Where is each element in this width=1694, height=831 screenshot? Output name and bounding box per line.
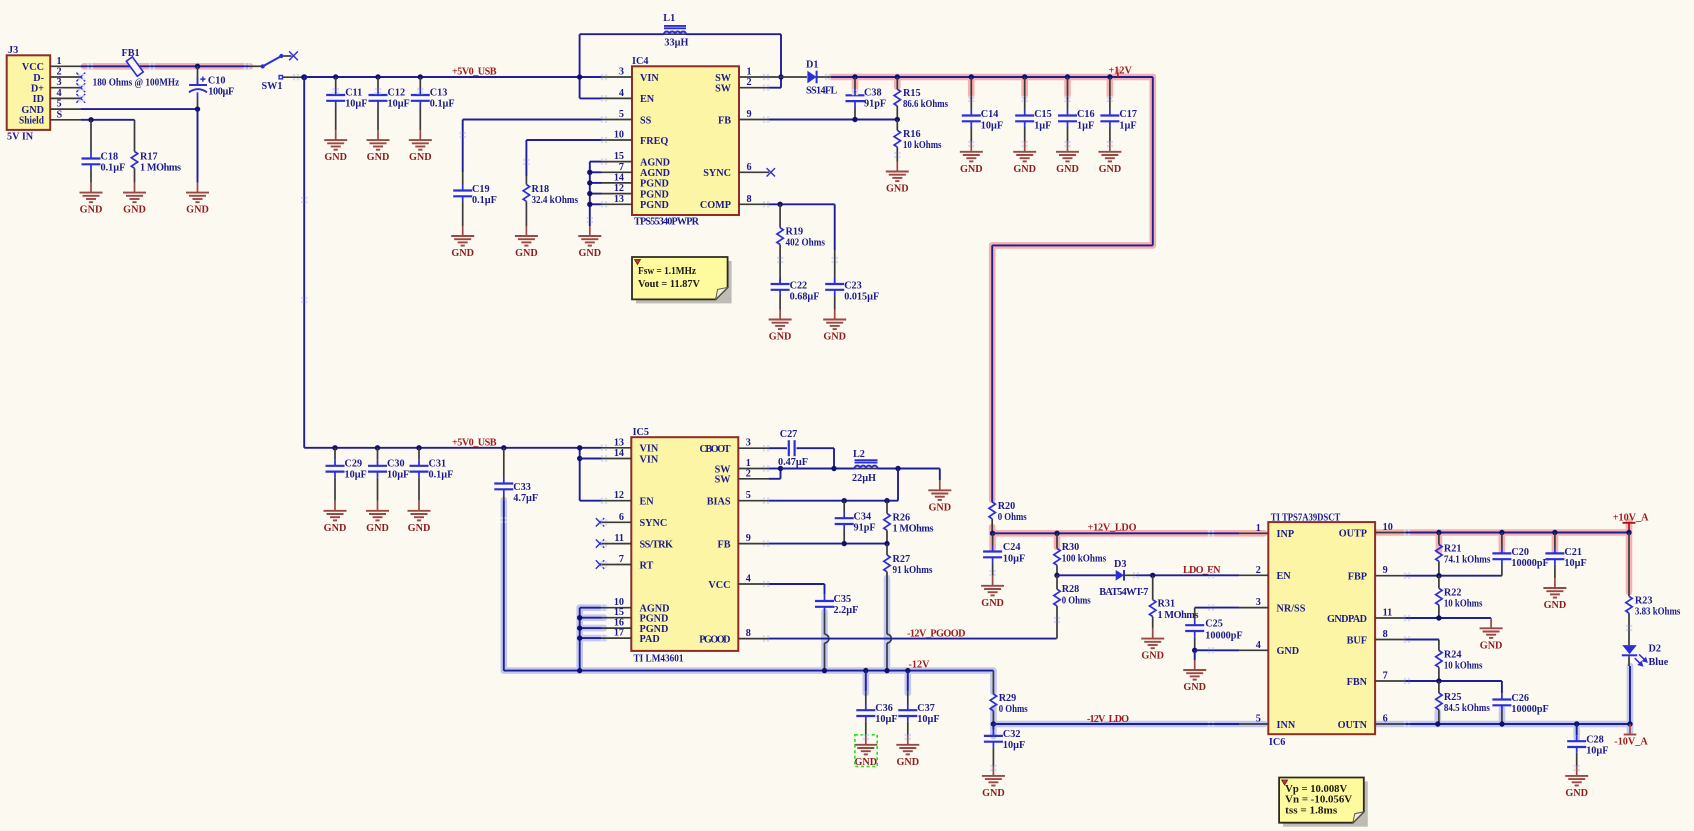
svg-text:PGND: PGND	[640, 200, 669, 211]
svg-text:C21: C21	[1564, 547, 1582, 558]
svg-text:1: 1	[1256, 523, 1261, 534]
svg-text:10µF: 10µF	[1564, 558, 1586, 569]
svg-text:-12V: -12V	[909, 659, 931, 670]
svg-text:BIAS: BIAS	[707, 497, 731, 508]
svg-text:R18: R18	[532, 184, 550, 195]
svg-text:GNDPAD: GNDPAD	[1327, 614, 1367, 625]
svg-text:8: 8	[1383, 629, 1388, 640]
svg-text:R27: R27	[893, 554, 911, 565]
svg-text:PGND: PGND	[640, 179, 669, 190]
svg-text:8: 8	[746, 628, 751, 639]
svg-text:VCC: VCC	[22, 62, 44, 73]
svg-text:10000pF: 10000pF	[1511, 704, 1548, 715]
svg-text:SYNC: SYNC	[640, 518, 668, 529]
svg-text:TPS55340PWPR: TPS55340PWPR	[634, 217, 700, 228]
svg-text:10µF: 10µF	[388, 99, 410, 110]
svg-text:R16: R16	[903, 129, 921, 140]
svg-text:FREQ: FREQ	[640, 136, 668, 147]
svg-text:VIN: VIN	[640, 454, 659, 465]
svg-text:33µH: 33µH	[664, 38, 688, 49]
svg-text:0 Ohms: 0 Ohms	[1062, 596, 1091, 607]
svg-text:5: 5	[619, 109, 624, 120]
svg-text:EN: EN	[1277, 571, 1292, 582]
svg-text:NR/SS: NR/SS	[1277, 603, 1306, 614]
svg-text:GND: GND	[1013, 164, 1036, 175]
svg-text:1 MOhms: 1 MOhms	[893, 524, 934, 535]
svg-text:0.47µF: 0.47µF	[778, 457, 808, 468]
svg-text:GND: GND	[769, 332, 792, 343]
svg-text:6: 6	[619, 512, 624, 523]
svg-text:BAT54WT-7: BAT54WT-7	[1099, 587, 1148, 598]
svg-text:C10: C10	[208, 75, 226, 86]
svg-text:R30: R30	[1062, 542, 1080, 553]
svg-text:-12V_LDO: -12V_LDO	[1087, 714, 1129, 725]
svg-text:GND: GND	[928, 502, 951, 513]
svg-text:PAD: PAD	[640, 634, 660, 645]
svg-text:7: 7	[619, 162, 624, 173]
svg-text:10 kOhms: 10 kOhms	[1444, 661, 1483, 672]
svg-text:2: 2	[57, 67, 62, 78]
svg-text:180 Ohms @ 100MHz: 180 Ohms @ 100MHz	[93, 78, 180, 89]
svg-text:10 kOhms: 10 kOhms	[903, 140, 942, 151]
svg-text:AGND: AGND	[640, 168, 670, 179]
svg-text:Blue: Blue	[1649, 657, 1669, 668]
svg-text:0.1µF: 0.1µF	[472, 195, 497, 206]
svg-text:3: 3	[746, 438, 751, 449]
svg-text:4: 4	[57, 88, 62, 99]
svg-text:4: 4	[746, 574, 751, 585]
svg-text:RT: RT	[640, 560, 654, 571]
svg-text:GND: GND	[1277, 646, 1300, 657]
svg-text:GND: GND	[515, 248, 538, 259]
svg-text:8: 8	[747, 194, 752, 205]
svg-text:15: 15	[614, 607, 624, 618]
svg-text:VIN: VIN	[640, 444, 659, 455]
svg-text:10µF: 10µF	[1003, 740, 1025, 751]
svg-text:0.1µF: 0.1µF	[101, 163, 126, 174]
svg-text:9: 9	[747, 109, 752, 120]
svg-text:GND: GND	[1056, 164, 1079, 175]
svg-text:C32: C32	[1003, 729, 1021, 740]
svg-text:Vp = 10.008V: Vp = 10.008V	[1285, 784, 1347, 795]
svg-text:C14: C14	[981, 109, 999, 120]
svg-text:EN: EN	[640, 497, 655, 508]
svg-text:OUTN: OUTN	[1338, 720, 1368, 731]
svg-text:Shield: Shield	[19, 116, 44, 127]
svg-text:SS/TRK: SS/TRK	[640, 539, 673, 550]
svg-text:IC4: IC4	[632, 56, 648, 67]
svg-text:100 kOhms: 100 kOhms	[1062, 554, 1107, 565]
svg-text:84.5 kOhms: 84.5 kOhms	[1444, 703, 1490, 714]
svg-text:Fsw = 1.1MHz: Fsw = 1.1MHz	[638, 266, 696, 277]
svg-text:5: 5	[746, 490, 751, 501]
svg-text:1µF: 1µF	[1119, 121, 1136, 132]
svg-text:C31: C31	[429, 458, 447, 469]
svg-text:C35: C35	[834, 594, 852, 605]
svg-text:10: 10	[614, 130, 624, 141]
svg-text:1 MOhms: 1 MOhms	[140, 163, 181, 174]
svg-text:9: 9	[746, 533, 751, 544]
svg-text:GND: GND	[886, 184, 909, 195]
svg-text:0.68µF: 0.68µF	[790, 292, 820, 303]
svg-text:11: 11	[1383, 608, 1393, 619]
svg-text:GND: GND	[981, 598, 1004, 609]
svg-text:TI TPS7A39DSCT: TI TPS7A39DSCT	[1271, 512, 1341, 523]
svg-text:100µF: 100µF	[208, 86, 234, 97]
svg-text:C26: C26	[1511, 693, 1529, 704]
svg-text:FB1: FB1	[122, 48, 140, 59]
svg-text:C20: C20	[1511, 547, 1529, 558]
svg-text:10µF: 10µF	[917, 714, 939, 725]
svg-text:R21: R21	[1444, 544, 1462, 555]
svg-text:C17: C17	[1119, 109, 1137, 120]
svg-text:4: 4	[1256, 640, 1261, 651]
svg-text:5V IN: 5V IN	[7, 132, 34, 143]
svg-text:13: 13	[614, 194, 624, 205]
svg-text:D1: D1	[806, 60, 818, 71]
svg-text:15: 15	[614, 151, 624, 162]
svg-text:GND: GND	[408, 523, 431, 534]
svg-text:GND: GND	[1141, 651, 1164, 662]
svg-text:tss = 1.8ms: tss = 1.8ms	[1285, 806, 1337, 817]
svg-text:2: 2	[746, 468, 751, 479]
svg-text:86.6 kOhms: 86.6 kOhms	[903, 99, 948, 110]
svg-text:GND: GND	[1099, 164, 1122, 175]
svg-text:4: 4	[619, 88, 624, 99]
svg-text:2: 2	[1256, 565, 1261, 576]
svg-text:VCC: VCC	[708, 580, 730, 591]
svg-text:GND: GND	[186, 205, 209, 216]
svg-text:10000pF: 10000pF	[1511, 558, 1548, 569]
svg-text:22µH: 22µH	[852, 473, 876, 484]
svg-text:C34: C34	[854, 512, 872, 523]
svg-text:91 kOhms: 91 kOhms	[893, 565, 933, 576]
svg-text:D+: D+	[31, 84, 44, 95]
svg-text:402 Ohms: 402 Ohms	[786, 238, 826, 249]
svg-text:VIN: VIN	[640, 73, 659, 84]
svg-text:GND: GND	[960, 164, 983, 175]
svg-text:1 MOhms: 1 MOhms	[1158, 610, 1199, 621]
svg-text:+12V_LDO: +12V_LDO	[1088, 523, 1137, 534]
svg-text:R24: R24	[1444, 650, 1462, 661]
svg-text:GND: GND	[80, 205, 103, 216]
svg-text:COMP: COMP	[700, 200, 731, 211]
svg-text:GND: GND	[578, 248, 601, 259]
svg-text:C30: C30	[387, 458, 405, 469]
svg-text:R28: R28	[1062, 584, 1080, 595]
svg-text:9: 9	[1383, 565, 1388, 576]
svg-text:C27: C27	[780, 429, 798, 440]
svg-text:0.1µF: 0.1µF	[429, 469, 454, 480]
svg-text:C29: C29	[345, 458, 363, 469]
svg-text:1µF: 1µF	[1034, 121, 1051, 132]
svg-text:L2: L2	[853, 449, 865, 460]
svg-text:C16: C16	[1077, 109, 1095, 120]
svg-text:1: 1	[57, 56, 62, 67]
svg-text:PGND: PGND	[640, 614, 669, 625]
svg-text:GND: GND	[1480, 640, 1503, 651]
svg-text:GND: GND	[1544, 600, 1567, 611]
svg-text:EN: EN	[640, 94, 655, 105]
svg-text:C37: C37	[917, 703, 935, 714]
svg-text:GND: GND	[451, 248, 474, 259]
svg-text:C33: C33	[513, 482, 531, 493]
svg-text:C18: C18	[101, 152, 119, 163]
svg-text:91pF: 91pF	[854, 523, 876, 534]
svg-text:C12: C12	[388, 88, 406, 99]
svg-text:0 Ohms: 0 Ohms	[998, 512, 1027, 523]
svg-text:R26: R26	[893, 513, 911, 524]
svg-text:GND: GND	[1183, 682, 1206, 693]
svg-text:7: 7	[1383, 671, 1388, 682]
svg-text:3: 3	[619, 67, 624, 78]
svg-text:ID: ID	[33, 94, 44, 105]
svg-text:R29: R29	[999, 693, 1017, 704]
svg-text:12: 12	[614, 183, 624, 194]
svg-text:SS: SS	[640, 115, 652, 126]
svg-text:10µF: 10µF	[981, 121, 1003, 132]
svg-text:-10V_A: -10V_A	[1614, 737, 1648, 748]
svg-text:10µF: 10µF	[387, 469, 409, 480]
svg-text:C24: C24	[1003, 542, 1021, 553]
svg-text:D2: D2	[1649, 644, 1661, 655]
svg-text:GND: GND	[1565, 788, 1588, 799]
svg-text:10µF: 10µF	[1003, 554, 1025, 565]
svg-text:SW: SW	[715, 84, 732, 95]
svg-text:10: 10	[1383, 522, 1393, 533]
svg-text:Vout = 11.87V: Vout = 11.87V	[638, 279, 700, 290]
svg-text:91pF: 91pF	[864, 99, 886, 110]
svg-text:AGND: AGND	[640, 157, 670, 168]
svg-text:1µF: 1µF	[1077, 121, 1094, 132]
svg-text:R22: R22	[1444, 587, 1462, 598]
svg-text:PGND: PGND	[640, 189, 669, 200]
svg-text:0.015µF: 0.015µF	[844, 292, 879, 303]
svg-text:GND: GND	[367, 152, 390, 163]
svg-text:+12V: +12V	[1109, 66, 1133, 77]
svg-text:+5V0_USB: +5V0_USB	[452, 67, 497, 78]
svg-text:FBP: FBP	[1348, 572, 1367, 583]
svg-text:14: 14	[614, 172, 624, 183]
svg-text:3: 3	[1256, 597, 1261, 608]
svg-text:5: 5	[57, 99, 62, 110]
svg-text:10µF: 10µF	[875, 714, 897, 725]
svg-text:GND: GND	[409, 152, 432, 163]
svg-text:SW: SW	[715, 73, 732, 84]
svg-text:32.4 kOhms: 32.4 kOhms	[532, 195, 579, 206]
svg-text:GND: GND	[21, 105, 44, 116]
svg-text:14: 14	[614, 448, 624, 459]
svg-text:L1: L1	[663, 13, 675, 24]
svg-text:D3: D3	[1114, 559, 1126, 570]
svg-text:GND: GND	[823, 332, 846, 343]
svg-text:PGOOD: PGOOD	[699, 634, 730, 645]
svg-text:C15: C15	[1034, 109, 1052, 120]
svg-text:R31: R31	[1158, 599, 1176, 610]
svg-text:FBN: FBN	[1347, 677, 1368, 688]
svg-text:SW1: SW1	[262, 81, 283, 92]
svg-text:D-: D-	[33, 73, 44, 84]
svg-text:GND: GND	[324, 523, 347, 534]
svg-text:INP: INP	[1277, 529, 1295, 540]
svg-text:2: 2	[747, 77, 752, 88]
svg-text:10000pF: 10000pF	[1205, 631, 1242, 642]
svg-text:12: 12	[614, 490, 624, 501]
svg-text:C13: C13	[430, 88, 448, 99]
svg-text:3.83 kOhms: 3.83 kOhms	[1635, 606, 1681, 617]
svg-text:BUF: BUF	[1347, 635, 1367, 646]
svg-text:5: 5	[1256, 714, 1261, 725]
svg-text:GND: GND	[324, 152, 347, 163]
svg-text:4.7µF: 4.7µF	[513, 493, 538, 504]
svg-text:R19: R19	[786, 227, 804, 238]
svg-text:R17: R17	[140, 152, 158, 163]
svg-text:C22: C22	[790, 281, 808, 292]
svg-text:13: 13	[614, 437, 624, 448]
svg-text:10µF: 10µF	[345, 469, 367, 480]
svg-text:-12V_PGOOD: -12V_PGOOD	[907, 628, 966, 639]
svg-text:0.1µF: 0.1µF	[430, 99, 455, 110]
svg-text:C28: C28	[1586, 735, 1604, 746]
svg-text:2.2µF: 2.2µF	[834, 605, 859, 616]
svg-text:C23: C23	[844, 281, 862, 292]
svg-text:SW: SW	[715, 475, 732, 486]
svg-text:J3: J3	[8, 45, 18, 56]
svg-text:IC5: IC5	[633, 427, 649, 438]
svg-text:C38: C38	[864, 88, 882, 99]
svg-text:11: 11	[614, 533, 624, 544]
svg-text:SS14FL: SS14FL	[806, 85, 838, 96]
svg-text:+5V0_USB: +5V0_USB	[452, 437, 497, 448]
svg-text:GND: GND	[896, 757, 919, 768]
svg-text:6: 6	[747, 162, 752, 173]
svg-text:C19: C19	[472, 184, 490, 195]
svg-text:7: 7	[619, 554, 624, 565]
svg-text:R23: R23	[1635, 595, 1653, 606]
svg-text:C36: C36	[875, 703, 893, 714]
svg-text:C11: C11	[345, 88, 362, 99]
svg-text:0 Ohms: 0 Ohms	[999, 704, 1028, 715]
svg-text:SYNC: SYNC	[703, 168, 731, 179]
svg-text:GND: GND	[123, 205, 146, 216]
svg-text:74.1 kOhms: 74.1 kOhms	[1444, 555, 1491, 566]
svg-text:S: S	[57, 109, 63, 120]
svg-text:1: 1	[747, 67, 752, 78]
svg-text:+10V_A: +10V_A	[1613, 512, 1649, 523]
svg-text:GND: GND	[982, 788, 1005, 799]
svg-text:10 kOhms: 10 kOhms	[1444, 598, 1483, 609]
svg-text:FB: FB	[718, 115, 731, 126]
svg-text:OUTP: OUTP	[1339, 528, 1367, 539]
svg-text:3: 3	[57, 77, 62, 88]
svg-text:17: 17	[614, 628, 624, 639]
svg-text:C25: C25	[1205, 619, 1223, 630]
svg-text:10µF: 10µF	[345, 99, 367, 110]
svg-text:Vn = -10.056V: Vn = -10.056V	[1285, 795, 1352, 806]
svg-text:INN: INN	[1277, 720, 1296, 731]
svg-text:10µF: 10µF	[1586, 746, 1608, 757]
svg-text:GND: GND	[366, 523, 389, 534]
svg-text:FB: FB	[717, 539, 730, 550]
svg-text:6: 6	[1383, 714, 1388, 725]
svg-text:R25: R25	[1444, 692, 1462, 703]
svg-text:R15: R15	[903, 88, 921, 99]
svg-text:IC6: IC6	[1269, 737, 1285, 748]
svg-text:TI LM43601: TI LM43601	[634, 654, 684, 665]
svg-text:CBOOT: CBOOT	[700, 444, 731, 455]
svg-text:R20: R20	[998, 501, 1016, 512]
